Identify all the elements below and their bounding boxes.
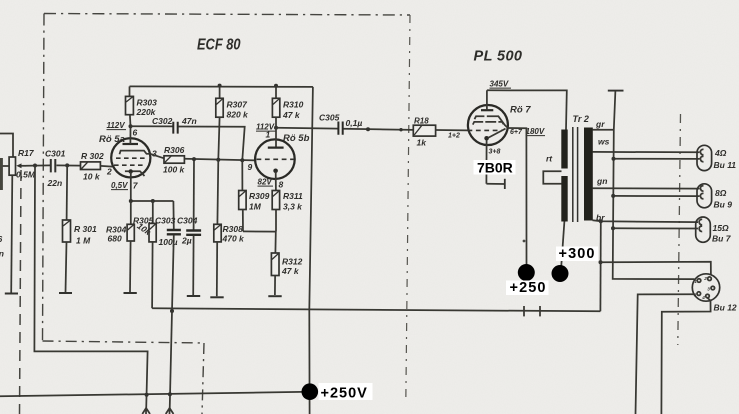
svg-text:112V: 112V: [107, 121, 126, 130]
svg-text:82V: 82V: [258, 178, 273, 187]
svg-text:1+2: 1+2: [448, 133, 460, 140]
wire C303 line continues to bottom connector: [170, 311, 172, 409]
socket 15 ohm Bu 7: [696, 217, 732, 244]
control grid g1 (dashed) pin 2: [114, 164, 146, 166]
svg-text:180V: 180V: [526, 127, 545, 136]
svg-text:C302: C302: [152, 116, 173, 126]
cropped component stub at left edge: [0, 158, 3, 190]
wire return to 8ohm: [613, 195, 699, 197]
svg-text:112V: 112V: [256, 123, 275, 132]
svg-text:2µ: 2µ: [181, 236, 192, 246]
svg-text:2: 2: [703, 276, 707, 281]
capacitor C302: [131, 116, 245, 160]
screen grid g2 with exit to pin 3: [120, 151, 151, 155]
svg-text:345V: 345V: [490, 80, 509, 89]
svg-text:R303: R303: [137, 98, 158, 108]
ground bus horizontal: [152, 308, 600, 311]
cathode node wire: [131, 200, 174, 202]
svg-text:C304: C304: [177, 216, 198, 226]
ground bar under R304: [124, 292, 137, 294]
chassis terminal top right: [608, 90, 624, 92]
resistor R18: [413, 117, 435, 148]
wire R309/R311 junction: [243, 230, 276, 232]
node cathode/R304 junction: [129, 199, 133, 203]
wire gr tap: [593, 129, 614, 131]
+250V feed vertical: [309, 87, 313, 414]
svg-text:1 M: 1 M: [76, 236, 91, 246]
resistor R308: [214, 160, 245, 296]
svg-text:+300: +300: [559, 246, 596, 262]
svg-text:Rö 7: Rö 7: [510, 105, 531, 116]
ground bar under R17: [5, 293, 18, 295]
svg-text:1k: 1k: [417, 138, 428, 148]
wire R18 to PL500 grid: [436, 129, 468, 131]
svg-text:47n: 47n: [181, 116, 197, 126]
resistor R304: [106, 201, 134, 292]
node return 15ohm junction: [611, 226, 615, 230]
svg-text:R307: R307: [227, 100, 249, 110]
wire R302 to grid pin2: [100, 165, 112, 168]
Tr2 primary winding upper: [561, 130, 567, 169]
node return 4ohm junction: [612, 157, 616, 161]
wire C301 to R302: [57, 164, 81, 166]
wire Bu12 bottom pin to bottom edge: [661, 298, 710, 414]
node anode 5a junction: [129, 124, 133, 128]
resistor R301: [63, 165, 97, 292]
node C302/R309 junction: [240, 158, 244, 162]
svg-text:4Ω: 4Ω: [714, 148, 727, 158]
svg-text:Bu 9: Bu 9: [714, 200, 733, 210]
node Bu12 feed junction: [599, 260, 603, 264]
cathode pin 7: [125, 171, 145, 176]
resistor R312: [271, 232, 302, 295]
svg-text:3: 3: [152, 149, 157, 159]
svg-text:ws: ws: [598, 137, 610, 147]
node return 8ohm junction: [611, 194, 615, 198]
crossing tick on ground bus: [523, 306, 525, 316]
junction C303 line to ground bus: [170, 309, 174, 313]
svg-text:Bu 12: Bu 12: [714, 303, 737, 313]
svg-text:3,3 k: 3,3 k: [283, 202, 303, 212]
wire to Bu12 top pin: [601, 262, 711, 275]
node C304 junction: [192, 157, 196, 161]
anode wire to Tr2 primary: [487, 90, 567, 129]
node anode 5b junction: [274, 126, 278, 130]
svg-text:+250V: +250V: [321, 386, 368, 402]
cathode: [484, 136, 489, 141]
tube Rö 5a (ECF80 pentode) envelope: [111, 138, 150, 177]
cathode pin 8: [273, 169, 278, 174]
svg-text:6: 6: [0, 234, 3, 244]
+250V supply bus bottom: [0, 392, 310, 397]
annotation +250 measurement dot: [518, 264, 535, 281]
svg-text:gr: gr: [595, 119, 605, 129]
svg-text:3+8: 3+8: [489, 149, 501, 156]
grid node wire to pin 9: [184, 159, 255, 161]
svg-text:8: 8: [279, 180, 284, 190]
ground bar under R308: [210, 296, 223, 298]
svg-text:C303: C303: [155, 216, 176, 226]
svg-text:100µ: 100µ: [159, 237, 178, 247]
node C301/R301 junction: [65, 163, 69, 167]
svg-text:820 k: 820 k: [227, 110, 250, 120]
wire ws tap to 4ohm: [593, 151, 700, 153]
rt tap connector: [543, 171, 561, 184]
wire Bu12 pin3 left to bottom edge: [636, 294, 695, 414]
svg-text:PL 500: PL 500: [474, 49, 523, 65]
svg-text:C305: C305: [319, 113, 340, 123]
svg-text:1M: 1M: [249, 202, 262, 212]
svg-text:gn: gn: [596, 176, 607, 186]
svg-text:0,1µ: 0,1µ: [346, 118, 363, 128]
node cathode/R305 junction: [151, 199, 155, 203]
node artifact on screen feed: [523, 240, 526, 243]
svg-text:100 k: 100 k: [163, 165, 186, 175]
svg-text:R310: R310: [283, 100, 304, 110]
svg-text:R306: R306: [164, 145, 185, 155]
node on signal line: [366, 127, 370, 131]
capacitor C305: [276, 113, 413, 135]
svg-text:470 k: 470 k: [222, 234, 246, 244]
grid g3 (dashed): [116, 157, 148, 159]
svg-text:8Ω: 8Ω: [715, 188, 727, 198]
Tr2 secondary winding: [584, 128, 593, 221]
svg-text:2: 2: [106, 167, 112, 177]
svg-text:47 k: 47 k: [282, 110, 301, 120]
svg-text:R311: R311: [283, 191, 303, 201]
svg-text:680: 680: [108, 234, 122, 244]
svg-text:15Ω: 15Ω: [713, 223, 729, 233]
svg-text:+250: +250: [510, 280, 547, 296]
svg-text:R312: R312: [282, 257, 303, 267]
svg-text:0,5V: 0,5V: [111, 181, 128, 190]
anode plate bar pin 6: [123, 143, 139, 145]
node br tap junction: [599, 219, 603, 223]
svg-text:22n: 22n: [47, 178, 63, 188]
common return vertical: [613, 91, 695, 280]
svg-text:Tr 2: Tr 2: [573, 114, 589, 124]
resistor R305: [133, 201, 156, 308]
svg-text:6+7: 6+7: [510, 129, 523, 136]
resistor R303: [126, 86, 158, 126]
wire br tap to 15ohm: [593, 220, 699, 222]
svg-text:R 301: R 301: [74, 224, 97, 234]
svg-text:Rö 5b: Rö 5b: [283, 133, 310, 144]
cathode wire to terminal: [486, 183, 504, 185]
ECF80 module boundary top edge (dash-dot): [44, 14, 410, 16]
anode supply top bus: [130, 85, 313, 88]
crossing tick on ground bus: [539, 306, 541, 316]
junction input branch on +250V bus: [145, 393, 149, 397]
capacitor C301: [45, 149, 66, 189]
wire stub to R17 left: [0, 165, 9, 167]
svg-text:R18: R18: [414, 117, 429, 126]
ground bar under R301: [59, 292, 72, 294]
wire R17 bottom to ground: [11, 175, 12, 293]
wire input from left edge: [0, 134, 13, 158]
svg-text:C301: C301: [45, 149, 66, 159]
annotation 7B0R: [474, 160, 516, 175]
svg-text:R309: R309: [249, 191, 270, 201]
wire return to 4ohm: [614, 158, 700, 160]
annotation +250V measurement dot: [302, 383, 319, 400]
Tr2 core: [573, 127, 578, 222]
resistor R306: [151, 145, 186, 175]
potentiometer R17: [9, 148, 36, 180]
svg-text:1: 1: [694, 279, 697, 284]
svg-text:9: 9: [248, 162, 253, 172]
wire primary bottom to +300 point: [561, 222, 564, 268]
junction C303 branch on +250V bus: [168, 392, 172, 396]
grid (dashed) pin 9: [257, 158, 294, 160]
node input junction: [33, 164, 37, 168]
br common down to ground bus: [599, 221, 601, 311]
socket 8 ohm Bu 9: [697, 184, 732, 210]
node at boundary crossing: [399, 128, 402, 131]
anode plate bar: [481, 109, 493, 111]
svg-text:3: 3: [707, 287, 710, 292]
tube Rö 5b (ECF80 triode) envelope: [255, 139, 295, 179]
wire gn tap to 8ohm: [593, 187, 700, 189]
wire R17 wiper to node: [26, 164, 50, 166]
screen feed wire down to +250 point: [508, 128, 527, 265]
resistor R302: [81, 151, 104, 182]
tube Rö 7 (PL500) envelope: [468, 105, 508, 145]
svg-text:47 k: 47 k: [281, 266, 300, 276]
right section boundary (dash-dot vertical): [678, 114, 681, 345]
svg-text:Bu 7: Bu 7: [712, 234, 732, 244]
connector arrow bottom (C303 line): [166, 408, 174, 414]
svg-text:Bu 11: Bu 11: [714, 160, 737, 170]
svg-text:7B0R: 7B0R: [477, 160, 513, 176]
ECF80 module boundary bottom edge (dash-dot): [43, 341, 205, 343]
wire input branch down: [34, 166, 147, 410]
node R307/R308 junction: [216, 158, 220, 162]
resistor R311: [272, 191, 303, 232]
svg-text:Rö 5a: Rö 5a: [99, 134, 125, 145]
svg-text:R17: R17: [18, 148, 35, 158]
dashed mechanical-link line: [20, 170, 22, 414]
svg-text:0,5M: 0,5M: [16, 170, 36, 180]
svg-text:R308: R308: [223, 224, 244, 234]
resistor R309: [239, 160, 270, 231]
wire return to 15ohm: [613, 227, 698, 229]
capacitor C304: [177, 159, 201, 295]
socket Bu 12 (DIN): [692, 274, 737, 313]
ground bar under R312: [268, 295, 281, 297]
svg-text:R 302: R 302: [81, 151, 104, 161]
Tr2 primary winding lower: [561, 176, 567, 222]
grid g3: [473, 122, 504, 125]
resistor R307: [216, 84, 249, 160]
screen grid g2: [475, 116, 508, 128]
connector arrow bottom (input branch): [142, 408, 150, 414]
ground bar under C304: [187, 295, 200, 297]
svg-text:10 k: 10 k: [83, 172, 101, 182]
svg-text:4: 4: [701, 295, 705, 300]
control grid g1 (dashed): [468, 129, 503, 131]
module boundary drop at x=204 (dash-dot): [202, 343, 204, 414]
annotation +300 measurement dot: [552, 265, 569, 282]
resistor R310: [272, 84, 303, 128]
socket 4 ohm Bu 11: [697, 145, 736, 170]
svg-text:7n: 7n: [0, 249, 4, 259]
svg-text:ECF 80: ECF 80: [197, 37, 241, 54]
capacitor C303: [155, 201, 181, 311]
ECF80 module boundary right edge (dash-dot): [406, 15, 410, 403]
ECF80 module boundary left edge (dash-dot): [43, 14, 45, 342]
svg-text:6: 6: [133, 128, 138, 138]
